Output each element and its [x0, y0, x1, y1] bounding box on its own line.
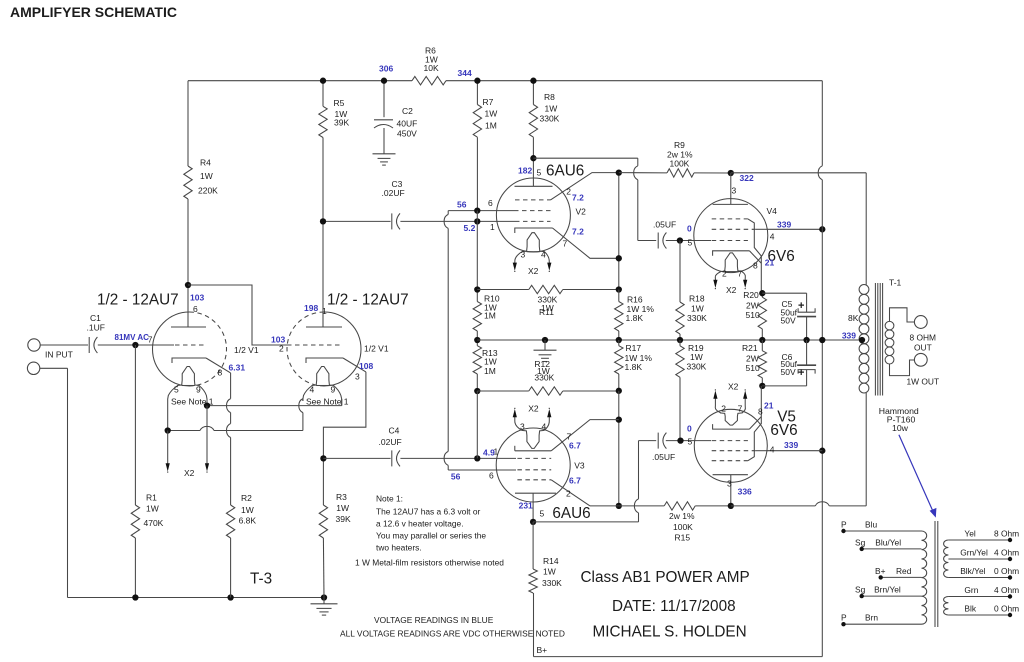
svg-text:6: 6 — [193, 304, 198, 314]
svg-text:X2: X2 — [726, 285, 737, 295]
junction C4 left — [320, 455, 326, 461]
svg-text:1W: 1W — [146, 504, 159, 514]
junction mid x619 — [616, 337, 622, 343]
svg-text:R17: R17 — [626, 343, 642, 353]
node 5.2 V2 — [464, 222, 496, 233]
svg-text:Brn: Brn — [865, 613, 878, 623]
note 1 text — [376, 494, 486, 553]
svg-text:6: 6 — [489, 471, 494, 481]
capacitor C3 — [323, 179, 515, 229]
resistor R12 — [477, 359, 619, 395]
svg-text:Grn: Grn — [964, 585, 978, 595]
svg-text:2: 2 — [721, 403, 726, 413]
wire column x477 — [476, 211, 478, 290]
label X2 V3 — [528, 404, 539, 414]
node 322 — [740, 173, 754, 183]
svg-text:1W: 1W — [543, 567, 556, 577]
hookup tap B+ Red — [875, 566, 922, 580]
svg-text:39K: 39K — [334, 118, 349, 128]
capacitor C4 — [323, 426, 516, 467]
svg-text:10w: 10w — [892, 423, 909, 433]
svg-text:1W: 1W — [485, 109, 498, 119]
label 1/2 - 12AU7 (V1b) — [327, 292, 409, 309]
svg-text:R15: R15 — [675, 532, 691, 542]
hookup sec Grn/Yel 4 Ohm — [948, 548, 1019, 562]
svg-text:339: 339 — [777, 219, 791, 229]
svg-text:56: 56 — [451, 471, 461, 481]
svg-text:6AU6: 6AU6 — [546, 162, 584, 179]
ground bottom rail — [311, 598, 338, 616]
junction mid ground — [542, 337, 548, 343]
capacitor C6 — [762, 340, 816, 386]
junction R5 top — [320, 78, 326, 84]
junction R15 left — [616, 503, 622, 509]
svg-text:3: 3 — [727, 478, 732, 488]
svg-text:0 Ohm: 0 Ohm — [994, 566, 1019, 576]
note vdc — [340, 628, 565, 638]
hookup tap Sg Blu/Yel — [855, 537, 922, 551]
svg-text:5: 5 — [537, 167, 542, 177]
junction C4 right — [474, 455, 480, 461]
svg-text:8: 8 — [218, 368, 223, 378]
junction V5 plate — [728, 503, 734, 509]
junction pin2 node V2 — [616, 169, 622, 175]
svg-text:5.2: 5.2 — [464, 223, 476, 233]
label 1/2 - 12AU7 (V1a) — [97, 292, 179, 309]
svg-text:198: 198 — [304, 303, 318, 313]
output terminal 8ohm — [914, 316, 927, 329]
node 4.9 V3 — [483, 447, 499, 458]
svg-text:2: 2 — [722, 268, 727, 278]
svg-text:ALL VOLTAGE READINGS ARE VDC O: ALL VOLTAGE READINGS ARE VDC OTHERWISE N… — [340, 628, 565, 638]
svg-text:C1: C1 — [90, 313, 101, 323]
wire V2pin6 to V3pin6 — [444, 211, 516, 470]
svg-text:1W OUT: 1W OUT — [907, 376, 940, 386]
svg-text:1: 1 — [490, 222, 495, 232]
svg-text:4: 4 — [542, 421, 547, 431]
hookup secondary coil A — [944, 540, 949, 578]
label X2 V4 — [726, 285, 737, 295]
svg-text:7: 7 — [563, 238, 568, 248]
heater arrow V3 left — [513, 408, 517, 421]
heater arrow V4 left — [713, 279, 717, 289]
triode V1a half 12AU7 — [148, 285, 259, 431]
resistor R4 — [184, 81, 218, 285]
svg-text:8: 8 — [753, 260, 758, 270]
svg-text:X2: X2 — [728, 381, 739, 391]
svg-text:7.2: 7.2 — [572, 226, 584, 236]
svg-text:3: 3 — [732, 185, 737, 195]
wire V4 pin4 — [768, 228, 822, 230]
svg-text:8 Ohm: 8 Ohm — [994, 529, 1019, 539]
hookup sec Grn 4 Ohm — [948, 585, 1019, 599]
junction R8 top — [530, 78, 536, 84]
wire heater B — [168, 399, 303, 431]
hookup core — [935, 521, 938, 627]
svg-text:344: 344 — [458, 68, 472, 78]
svg-text:Class AB1 POWER AMP: Class AB1 POWER AMP — [581, 569, 750, 586]
svg-text:339: 339 — [784, 440, 798, 450]
svg-text:0: 0 — [687, 223, 692, 233]
svg-text:450V: 450V — [397, 129, 417, 139]
transformer T1 primary — [859, 278, 901, 394]
label 6AU6 V3 — [552, 505, 590, 522]
junction V5 cathode — [759, 383, 765, 389]
node 339 V4 — [770, 219, 792, 241]
note blue — [374, 615, 494, 625]
resistor R8 — [529, 81, 559, 159]
resistor R5 — [319, 81, 350, 222]
svg-text:5: 5 — [174, 385, 179, 395]
heater arrow V2 right — [547, 263, 551, 272]
junction V3 plate — [530, 519, 536, 525]
wire C1 to V1 grid — [98, 344, 174, 346]
svg-text:2W: 2W — [746, 301, 759, 311]
svg-text:Blu: Blu — [865, 519, 877, 529]
svg-text:2w 1%: 2w 1% — [669, 511, 695, 521]
node 81MV AC — [115, 333, 150, 342]
junction B+ V5pin4 — [819, 448, 825, 454]
hookup sec Yel 8 Ohm — [948, 529, 1019, 543]
heater arrow right X2 V1 — [205, 406, 209, 473]
svg-text:Grn/Yel: Grn/Yel — [960, 548, 988, 558]
svg-text:1W: 1W — [200, 171, 213, 181]
wire mid rail 339 — [477, 339, 862, 341]
input terminal lower — [27, 362, 39, 374]
svg-text:21: 21 — [765, 257, 775, 267]
junction rail R1 — [132, 594, 138, 600]
svg-text:VOLTAGE READINGS IN BLUE: VOLTAGE READINGS IN BLUE — [374, 615, 494, 625]
svg-text:Sg: Sg — [855, 585, 866, 595]
svg-text:.05UF: .05UF — [652, 452, 675, 462]
wire top B+ rail — [188, 80, 822, 82]
junction B+ mid rail — [819, 337, 825, 343]
svg-text:7: 7 — [567, 431, 572, 441]
resistor R18 — [676, 241, 707, 341]
svg-text:6V6: 6V6 — [770, 422, 797, 439]
svg-text:5: 5 — [688, 436, 693, 446]
node 339 V5 — [770, 440, 799, 454]
svg-text:R3: R3 — [336, 492, 347, 502]
svg-text:6AU6: 6AU6 — [552, 505, 590, 522]
svg-text:7: 7 — [738, 403, 743, 413]
junction R13 top — [474, 337, 480, 343]
node 344 — [458, 68, 472, 78]
resistor R16 — [615, 290, 655, 341]
svg-text:R20: R20 — [743, 290, 759, 300]
label 6AU6 V2 — [546, 162, 584, 179]
wire heater A — [207, 399, 342, 406]
svg-text:4: 4 — [310, 385, 315, 395]
svg-text:1W: 1W — [691, 304, 704, 314]
svg-text:1/2 V1: 1/2 V1 — [234, 345, 259, 355]
label 6V6 V4 — [768, 248, 795, 265]
hookup sec Blk/Yel 0 Ohm — [948, 566, 1019, 580]
junction rail R2 — [227, 594, 233, 600]
svg-text:R16: R16 — [627, 295, 643, 305]
resistor R9 — [619, 140, 731, 177]
svg-text:B+: B+ — [537, 645, 548, 655]
junction V4 grid — [677, 237, 683, 243]
heater arrow V5 right — [743, 389, 747, 405]
capacitor .05UF V4 — [653, 219, 676, 248]
wire column x619 — [618, 173, 620, 290]
triode V1b half 12AU7 — [271, 221, 389, 406]
svg-text:8 OHM: 8 OHM — [910, 333, 937, 343]
note resistors — [355, 558, 504, 568]
svg-text:330K: 330K — [687, 362, 707, 372]
svg-text:220K: 220K — [198, 186, 218, 196]
label X2 V1 — [184, 468, 195, 478]
wire cap to V5 pin5 — [666, 440, 711, 442]
pentode V3 6AU6 — [496, 420, 619, 522]
svg-text:P: P — [841, 519, 847, 529]
svg-text:OUT: OUT — [914, 342, 932, 352]
svg-text:50V: 50V — [781, 316, 796, 326]
svg-text:C2: C2 — [402, 106, 413, 116]
label Class AB1 POWER AMP — [581, 569, 750, 586]
wire R13 to C4 node — [476, 391, 478, 458]
pentode V2 6AU6 — [496, 158, 618, 263]
wire x619 down — [618, 391, 620, 506]
svg-text:322: 322 — [740, 173, 754, 183]
svg-text:4: 4 — [541, 250, 546, 260]
svg-text:R21: R21 — [742, 343, 758, 353]
svg-text:510: 510 — [746, 363, 760, 373]
wire plate V4 rail — [731, 173, 866, 285]
heater arrow V5 left — [713, 389, 717, 405]
heater arrow V3 right — [547, 408, 551, 421]
svg-text:100K: 100K — [670, 159, 690, 169]
svg-text:X2: X2 — [528, 266, 539, 276]
capacitor C5 — [762, 293, 816, 340]
svg-text:8K: 8K — [848, 313, 859, 323]
resistor R7 — [473, 81, 497, 211]
svg-text:T-1: T-1 — [889, 278, 902, 288]
resistor R10 — [473, 290, 500, 341]
svg-text:1/2 - 12AU7: 1/2 - 12AU7 — [97, 292, 179, 309]
svg-text:9: 9 — [331, 385, 336, 395]
wire cap to V4 pin5 — [666, 240, 711, 242]
svg-text:a 12.6 v heater voltage.: a 12.6 v heater voltage. — [376, 519, 464, 529]
svg-text:6: 6 — [488, 198, 493, 208]
capacitor C2 — [374, 81, 417, 154]
svg-text:The 12AU7 has a 6.3 volt or: The 12AU7 has a 6.3 volt or — [376, 507, 480, 517]
svg-text:7: 7 — [148, 335, 153, 345]
svg-text:two heaters.: two heaters. — [376, 543, 422, 553]
junction V4 cathode — [759, 290, 765, 296]
svg-text:4: 4 — [770, 444, 775, 454]
svg-text:3: 3 — [355, 372, 360, 382]
resistor R11 — [477, 285, 619, 317]
junction V3 pin7 node — [616, 416, 622, 422]
svg-text:R2: R2 — [241, 493, 252, 503]
svg-text:330K: 330K — [687, 313, 707, 323]
svg-text:6.7: 6.7 — [569, 440, 581, 450]
svg-text:39K: 39K — [336, 514, 351, 524]
svg-text:R1: R1 — [146, 493, 157, 503]
svg-text:R14: R14 — [543, 556, 559, 566]
junction V2 pin6 node — [474, 207, 480, 213]
svg-text:0 Ohm: 0 Ohm — [994, 604, 1019, 614]
svg-text:81MV AC: 81MV AC — [115, 333, 150, 342]
svg-text:1W: 1W — [336, 503, 349, 513]
svg-text:3: 3 — [521, 250, 526, 260]
svg-text:40UF: 40UF — [397, 118, 418, 128]
svg-text:.05UF: .05UF — [653, 219, 676, 229]
junction heater A — [204, 402, 210, 408]
svg-text:2: 2 — [279, 344, 284, 354]
junction pin7 node V2 — [616, 255, 622, 261]
resistor R19 — [676, 340, 707, 441]
svg-text:5: 5 — [688, 237, 693, 247]
junction R17 bottom — [616, 388, 622, 394]
pointer arrow to core — [899, 435, 937, 518]
label 8 OHM OUT — [910, 333, 937, 353]
label X2 V2 — [528, 266, 539, 276]
svg-text:2: 2 — [566, 186, 571, 196]
svg-text:.1UF: .1UF — [87, 323, 105, 333]
svg-text:X2: X2 — [184, 468, 195, 478]
svg-text:100K: 100K — [673, 522, 693, 532]
junction C2 top — [381, 78, 387, 84]
svg-text:1W: 1W — [690, 352, 703, 362]
junction R20 mid — [759, 337, 765, 343]
svg-text:8: 8 — [758, 406, 763, 416]
ground mid rail — [534, 340, 557, 362]
svg-text:510: 510 — [746, 310, 760, 320]
svg-text:231: 231 — [519, 500, 533, 510]
junction R13 bottom — [474, 388, 480, 394]
junction V4 pin4 node — [819, 226, 825, 232]
beam tetrode V5 6V6 — [694, 386, 773, 506]
svg-text:R4: R4 — [200, 158, 211, 168]
svg-text:1 W Metal-film resistors other: 1 W Metal-film resistors otherwise noted — [355, 558, 504, 568]
hookup tap P Brn — [841, 613, 922, 627]
resistor R21 — [742, 340, 767, 386]
svg-text:4 Ohm: 4 Ohm — [994, 548, 1019, 558]
wire V5 pin4 — [767, 450, 823, 452]
junction R11 right — [616, 286, 622, 292]
svg-text:1: 1 — [322, 306, 327, 316]
junction R9 right — [728, 170, 734, 176]
svg-text:Blk: Blk — [964, 604, 976, 614]
svg-text:1.8K: 1.8K — [626, 313, 644, 323]
svg-text:Sg: Sg — [855, 537, 866, 547]
svg-text:50V: 50V — [781, 367, 796, 377]
resistor R6 — [412, 46, 446, 85]
junction V2 pin1 node — [474, 218, 480, 224]
svg-text:108: 108 — [359, 361, 373, 371]
wire bottom rail — [68, 597, 325, 599]
label V4 — [767, 206, 778, 216]
svg-text:2W: 2W — [746, 354, 759, 364]
svg-text:103: 103 — [190, 292, 204, 302]
wire lower input — [40, 368, 68, 597]
svg-text:6.31: 6.31 — [229, 362, 246, 372]
svg-text:DATE: 11/17/2008: DATE: 11/17/2008 — [612, 598, 736, 615]
svg-text:R18: R18 — [689, 294, 705, 304]
capacitor C1 — [87, 313, 105, 353]
output terminal 1w — [914, 353, 927, 366]
svg-text:1W: 1W — [484, 356, 497, 366]
svg-text:6.7: 6.7 — [569, 475, 581, 485]
resistor R13 — [473, 340, 498, 391]
junction rail ground — [321, 594, 327, 600]
svg-text:IN PUT: IN PUT — [45, 350, 73, 360]
svg-text:182: 182 — [518, 166, 532, 176]
svg-text:336: 336 — [738, 487, 752, 497]
junction T1 center tap — [859, 337, 865, 343]
capacitor .05UF V5 — [652, 433, 675, 462]
svg-text:R5: R5 — [334, 98, 345, 108]
svg-text:X2: X2 — [528, 404, 539, 414]
svg-text:Blu/Yel: Blu/Yel — [875, 537, 901, 547]
title AMPLIFYER SCHEMATIC — [10, 4, 177, 20]
heater arrow left X2 V1 — [166, 431, 170, 473]
node 56 V3 — [451, 471, 494, 482]
svg-text:1.8K: 1.8K — [625, 362, 643, 372]
svg-text:MICHAEL S. HOLDEN: MICHAEL S. HOLDEN — [593, 623, 747, 640]
junction heater B — [165, 427, 171, 433]
svg-text:3: 3 — [520, 421, 525, 431]
label V5 — [777, 408, 796, 425]
svg-text:5: 5 — [540, 508, 545, 518]
label IN PUT — [45, 350, 73, 360]
svg-text:1/2 - 12AU7: 1/2 - 12AU7 — [327, 292, 409, 309]
label Hammond — [879, 406, 919, 433]
label T-3 — [250, 571, 272, 588]
svg-text:Note 1:: Note 1: — [376, 494, 403, 504]
label B+ — [537, 645, 548, 655]
svg-text:R9: R9 — [674, 140, 685, 150]
svg-text:.02UF: .02UF — [379, 437, 402, 447]
hookup tap P Blu — [841, 519, 922, 533]
wire V2 plate to cap — [533, 158, 656, 240]
svg-text:V3: V3 — [574, 460, 585, 470]
node 306 — [379, 63, 393, 73]
heater arrow V2 left — [513, 263, 517, 272]
svg-text:9: 9 — [196, 385, 201, 395]
resistor R14 — [529, 522, 562, 593]
wire B+ right rail — [818, 81, 822, 657]
svg-text:7.2: 7.2 — [572, 192, 584, 202]
junction V2 plate — [530, 155, 536, 161]
node 339 mid — [842, 330, 856, 340]
svg-text:306: 306 — [379, 63, 393, 73]
label X2 V5 — [728, 381, 739, 391]
svg-text:Red: Red — [896, 566, 912, 576]
resistor R3 — [319, 458, 351, 597]
svg-text:1M: 1M — [484, 310, 496, 320]
svg-text:4: 4 — [770, 231, 775, 241]
svg-text:1/2 V1: 1/2 V1 — [364, 344, 389, 354]
heater arrow V4 right — [743, 279, 747, 289]
wire V3 plate to cap — [533, 441, 656, 522]
hookup primary coil — [922, 531, 927, 624]
svg-text:330K: 330K — [542, 578, 562, 588]
svg-text:0: 0 — [687, 423, 692, 433]
svg-text:470K: 470K — [144, 518, 164, 528]
transformer T1 core — [875, 283, 882, 396]
svg-text:4 Ohm: 4 Ohm — [994, 585, 1019, 595]
beam tetrode V4 6V6 — [694, 173, 775, 293]
resistor R17 — [615, 340, 653, 391]
svg-text:See Note 1: See Note 1 — [306, 396, 349, 406]
svg-text:AMPLIFYER SCHEMATIC: AMPLIFYER SCHEMATIC — [10, 4, 177, 20]
node 0 V5 — [687, 423, 693, 446]
svg-text:Yel: Yel — [964, 529, 975, 539]
